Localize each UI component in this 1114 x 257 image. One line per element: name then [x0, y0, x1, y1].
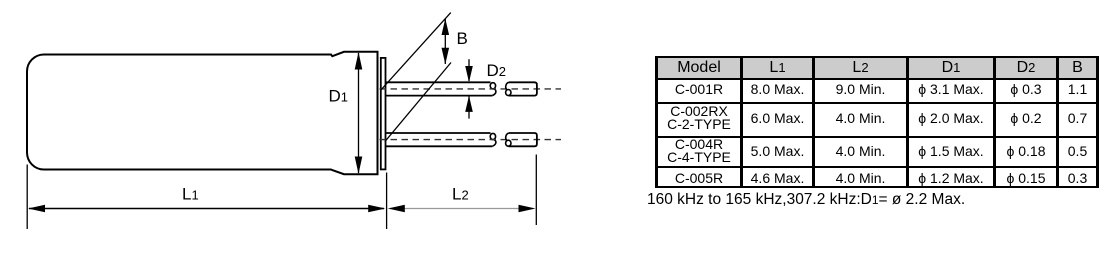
dimension D1 arrowhead down: [355, 157, 363, 175]
lead spread projection line lower: [385, 63, 451, 142]
dimension L2 arrowhead left: [388, 205, 405, 213]
lead 1 far segment outline: [509, 82, 537, 95]
dimension L1 arrowhead right: [368, 205, 385, 213]
dimension B arrowhead up: [442, 19, 450, 36]
svg-text:D1: D1: [329, 86, 349, 105]
lead 2 top edge: [385, 132, 490, 134]
lead 1 far segment break curve: [506, 82, 509, 90]
dimension B arrowhead down: [442, 48, 450, 65]
lead 2 break curve: [492, 140, 496, 147]
svg-text:B: B: [457, 29, 468, 48]
lead 1 bottom edge: [385, 95, 492, 97]
table footnote: [647, 191, 965, 209]
lead 2 break loop: [490, 133, 495, 139]
extension line L1 L2 boundary: [386, 173, 388, 230]
dimension L2 line: [390, 208, 533, 210]
dimension D1 arrowhead up: [355, 52, 363, 70]
lead 2 far segment outline: [509, 133, 537, 146]
extension line L1 left: [26, 165, 28, 230]
lead 2 far segment break curve: [506, 133, 509, 141]
lead 1 centerline: [380, 88, 562, 90]
lead 1 top edge: [385, 81, 490, 83]
dimension L2 arrowhead right: [519, 205, 536, 213]
dimension L1 line: [29, 208, 384, 210]
dimension D2 upper arrow: [468, 59, 470, 81]
can base plug: [381, 58, 386, 169]
svg-text:L1: L1: [182, 184, 199, 203]
lead spread projection line upper: [381, 13, 451, 90]
lead 1 break loop: [490, 83, 495, 89]
svg-text:D2: D2: [487, 61, 507, 80]
lead 1 break curve: [492, 89, 496, 96]
specification table: [655, 56, 1099, 188]
svg-text:L2: L2: [452, 184, 469, 203]
dimension L1 arrowhead left: [28, 205, 45, 213]
dimension B arrow line: [444, 19, 446, 64]
lead 2 centerline: [380, 139, 562, 141]
dimension D2 lower arrow: [468, 97, 470, 119]
lead 2 far segment break loop: [506, 140, 511, 146]
dimension D1 arrow line: [358, 53, 360, 173]
crystal can body: [27, 52, 378, 174]
extension line L2 right: [535, 155, 537, 226]
lead 1 far segment break loop: [506, 90, 511, 96]
lead 2 bottom edge: [385, 145, 492, 147]
